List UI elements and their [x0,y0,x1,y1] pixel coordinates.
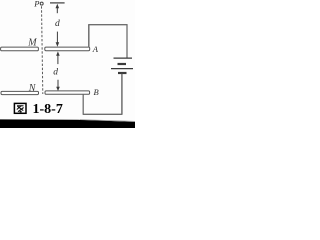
caption character tu (boxed glyph) [14,103,26,113]
dimension d1 upper arrow [56,4,60,13]
dimension d1 top bar [50,2,65,4]
wire bottom horizontal [83,113,123,115]
page edge highlight line [80,120,135,122]
svg-text:A: A [92,44,99,54]
page edge black band [0,119,135,128]
plate B [45,91,90,94]
wire right down to battery [126,24,128,58]
svg-text:N: N [28,83,37,94]
dimension d2 upper arrow [56,51,60,64]
wire plate B down [82,94,84,114]
svg-text:B: B [94,87,99,97]
plate A [45,47,90,51]
dimension d1 lower arrow [56,32,60,47]
svg-text:P: P [33,0,39,9]
battery short plate 1 [118,63,127,65]
svg-text:d: d [53,68,58,78]
dimension d2 lower arrow [56,80,60,91]
battery long plate 2 [111,68,133,70]
svg-text:d: d [55,19,60,29]
battery short plate 2 [118,72,127,74]
svg-text:M: M [27,38,37,49]
wire battery down [121,74,123,115]
trajectory dashed line [42,6,43,94]
battery long plate 1 [114,57,133,59]
plate N [1,91,39,94]
point P circle [40,2,43,5]
plate M [1,47,39,51]
wire plate A up [88,25,90,48]
wire top horizontal [88,24,127,26]
svg-text:1-8-7: 1-8-7 [33,102,63,117]
